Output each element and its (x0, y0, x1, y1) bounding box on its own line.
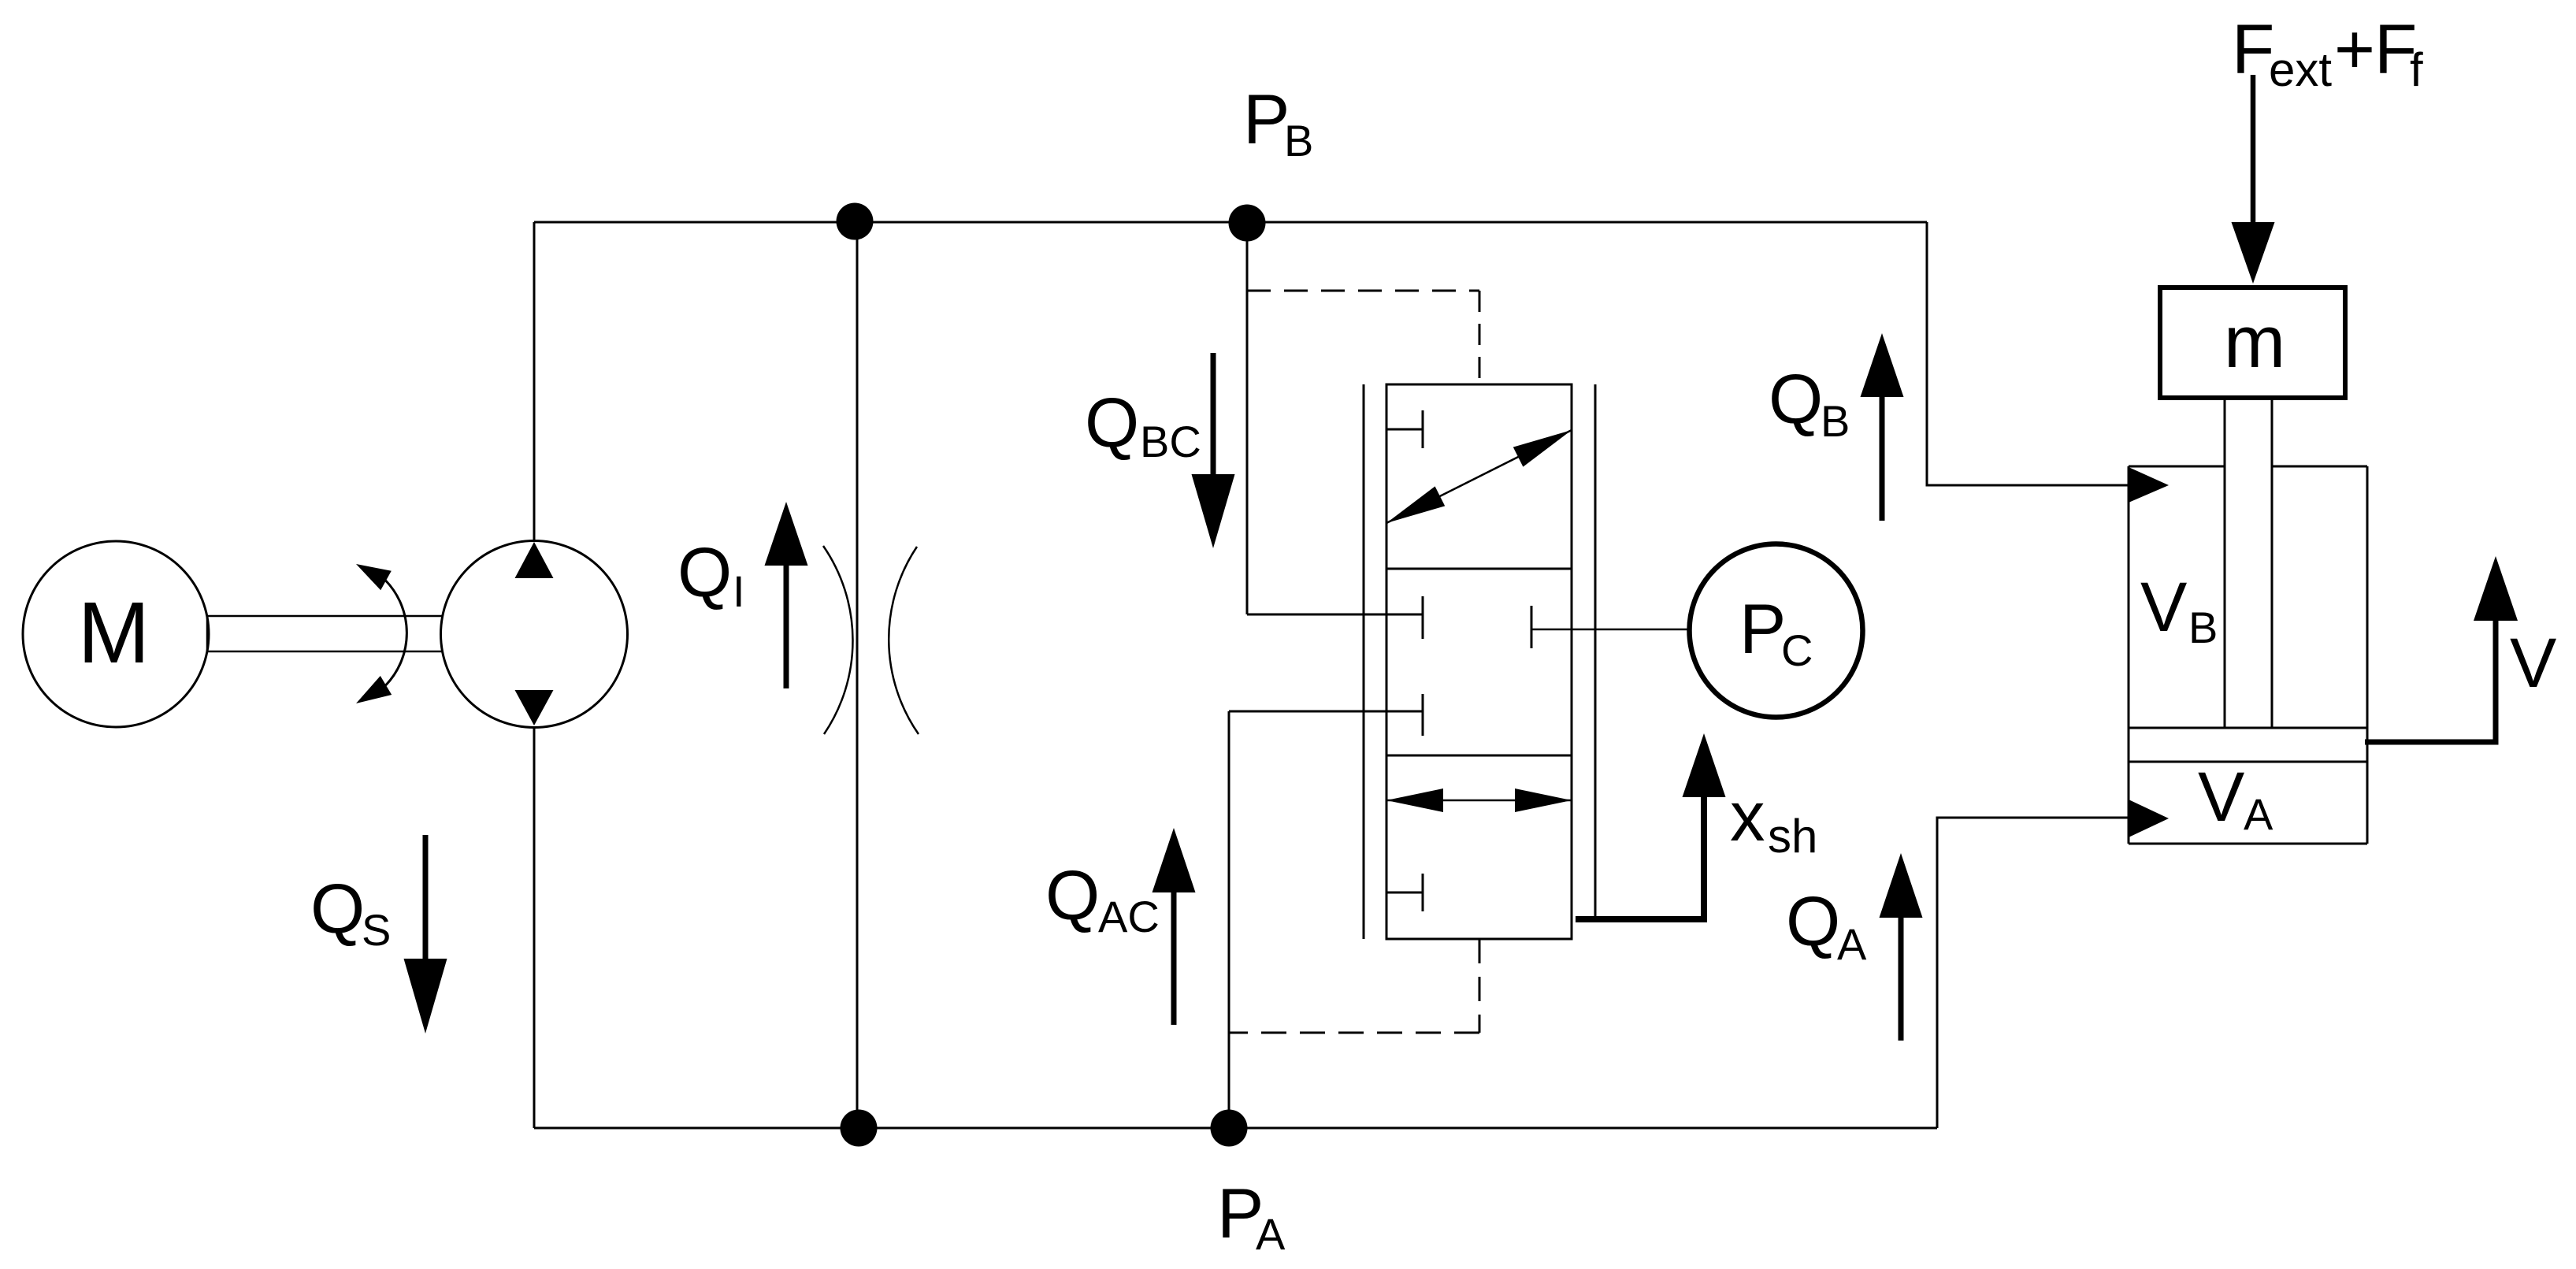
wire A branch horizontal to valve port (1229, 711, 1423, 713)
valve bottom arrow head right (1515, 788, 1572, 812)
arrow Q_BC down (1211, 353, 1216, 474)
svg-text:M: M (78, 584, 150, 681)
wire top bus P_B line (534, 221, 1927, 224)
pilot line dashed A side horizontal (1229, 1032, 1479, 1034)
svg-text:Q: Q (310, 869, 365, 948)
svg-text:x: x (1730, 777, 1765, 855)
force F arrow shaft (2251, 75, 2256, 224)
valve middle port tick upper left (1422, 596, 1424, 639)
pilot pressure source P_C circle (1690, 544, 1863, 718)
node junction dot bottom left (841, 1110, 878, 1147)
orifice right arc (889, 547, 919, 734)
wire A branch vertical from P_A (1228, 711, 1230, 1128)
valve bottom section port T (1387, 874, 1423, 911)
valve left rail (1363, 384, 1365, 939)
mass m box (2160, 288, 2345, 398)
piston rod right line (2271, 400, 2273, 728)
arrow Q_A up (1899, 918, 1904, 1041)
wire bottom bus P_A line (534, 1127, 1937, 1130)
wire pump bottom vertical (533, 726, 536, 1128)
wire pump top vertical (533, 222, 536, 542)
svg-text:V: V (2140, 567, 2187, 646)
arrow Q_S down (423, 835, 429, 959)
svg-text:Q: Q (1045, 855, 1100, 934)
shaft motor to pump (207, 616, 443, 651)
svg-text:Q: Q (1085, 383, 1139, 462)
svg-text:Q: Q (1786, 881, 1840, 960)
orifice left arc (823, 546, 852, 734)
wire bottom right to cylinder port A (1937, 818, 2129, 1128)
rotation arrow head bottom (356, 676, 392, 703)
rotation arrow head top (356, 564, 392, 590)
cylinder top edge right of rod (2272, 466, 2367, 468)
svg-text:AC: AC (1098, 892, 1160, 941)
svg-text:sh: sh (1768, 810, 1817, 863)
wire B branch horizontal to valve port (1247, 614, 1423, 616)
cylinder port B arrow head (2129, 467, 2169, 503)
node junction dot P_A (1211, 1110, 1248, 1147)
svg-text:B: B (2188, 603, 2218, 652)
valve body box (1386, 384, 1572, 939)
cylinder barrel left edge (2128, 466, 2130, 844)
pilot line dashed A side vertical (1479, 939, 1481, 1033)
svg-text:A: A (1837, 919, 1867, 969)
motor M circle (23, 541, 209, 727)
pump circle (441, 541, 628, 728)
arrow Q_I up (784, 566, 789, 688)
x_sh arrow head (1683, 733, 1726, 797)
valve middle port tick lower left (1422, 694, 1424, 736)
pump triangle up (515, 542, 554, 578)
valve middle port tick right (1531, 606, 1533, 648)
valve diagonal arrow head lower left (1386, 486, 1445, 523)
piston rod left line (2224, 400, 2226, 728)
wire B branch vertical from P_B (1246, 222, 1249, 614)
cylinder barrel right edge (2366, 466, 2369, 844)
piston bottom line (2129, 761, 2367, 763)
svg-text:V: V (2198, 757, 2244, 836)
svg-text:ext: ext (2269, 43, 2332, 96)
svg-text:P: P (1739, 589, 1786, 668)
svg-text:A: A (2244, 789, 2273, 839)
wire orifice branch vertical (856, 222, 859, 1128)
svg-text:C: C (1781, 625, 1813, 675)
svg-text:P: P (1243, 80, 1290, 158)
cylinder port A arrow head (2129, 800, 2169, 837)
velocity V arrow head (2474, 556, 2518, 621)
velocity V thick line (2365, 621, 2496, 742)
svg-text:f: f (2410, 43, 2423, 96)
valve divider lower (1386, 755, 1572, 757)
svg-text:+: + (2334, 9, 2375, 88)
valve bottom arrow head left (1386, 788, 1443, 812)
node junction dot top left (837, 203, 874, 240)
arrow Q_AC up (1171, 892, 1177, 1025)
svg-text:B: B (1821, 396, 1850, 446)
force F arrow head (2232, 222, 2275, 284)
valve diagonal arrow head upper right (1513, 430, 1572, 467)
svg-text:Q: Q (1769, 359, 1823, 438)
wire top right to cylinder port B (1927, 222, 2129, 485)
pump triangle down (515, 690, 554, 725)
valve top section diagonal arrow (1386, 430, 1572, 523)
svg-text:BC: BC (1140, 417, 1201, 466)
svg-text:I: I (733, 566, 745, 616)
wire valve to P_C (1531, 629, 1690, 631)
valve right rail (1594, 384, 1597, 916)
svg-text:B: B (1284, 116, 1313, 165)
svg-text:V: V (2510, 623, 2556, 702)
svg-text:m: m (2224, 300, 2285, 383)
svg-text:A: A (1256, 1209, 1286, 1259)
svg-text:Q: Q (677, 532, 732, 611)
spool position x_sh thick line (1576, 797, 1704, 919)
valve divider upper (1386, 568, 1572, 570)
valve top section port T (1387, 410, 1423, 448)
piston top line (2129, 727, 2367, 729)
cylinder top edge left of rod (2129, 466, 2225, 468)
rotation arrow arc (386, 581, 407, 685)
node junction dot P_B (1229, 205, 1266, 242)
pilot line dashed B side vertical (1479, 291, 1481, 384)
svg-text:S: S (362, 905, 391, 955)
arrow Q_B up (1880, 397, 1885, 521)
valve bottom section double arrow (1386, 800, 1572, 802)
pilot line dashed B side horizontal (1247, 290, 1479, 292)
cylinder bottom edge (2129, 843, 2367, 845)
